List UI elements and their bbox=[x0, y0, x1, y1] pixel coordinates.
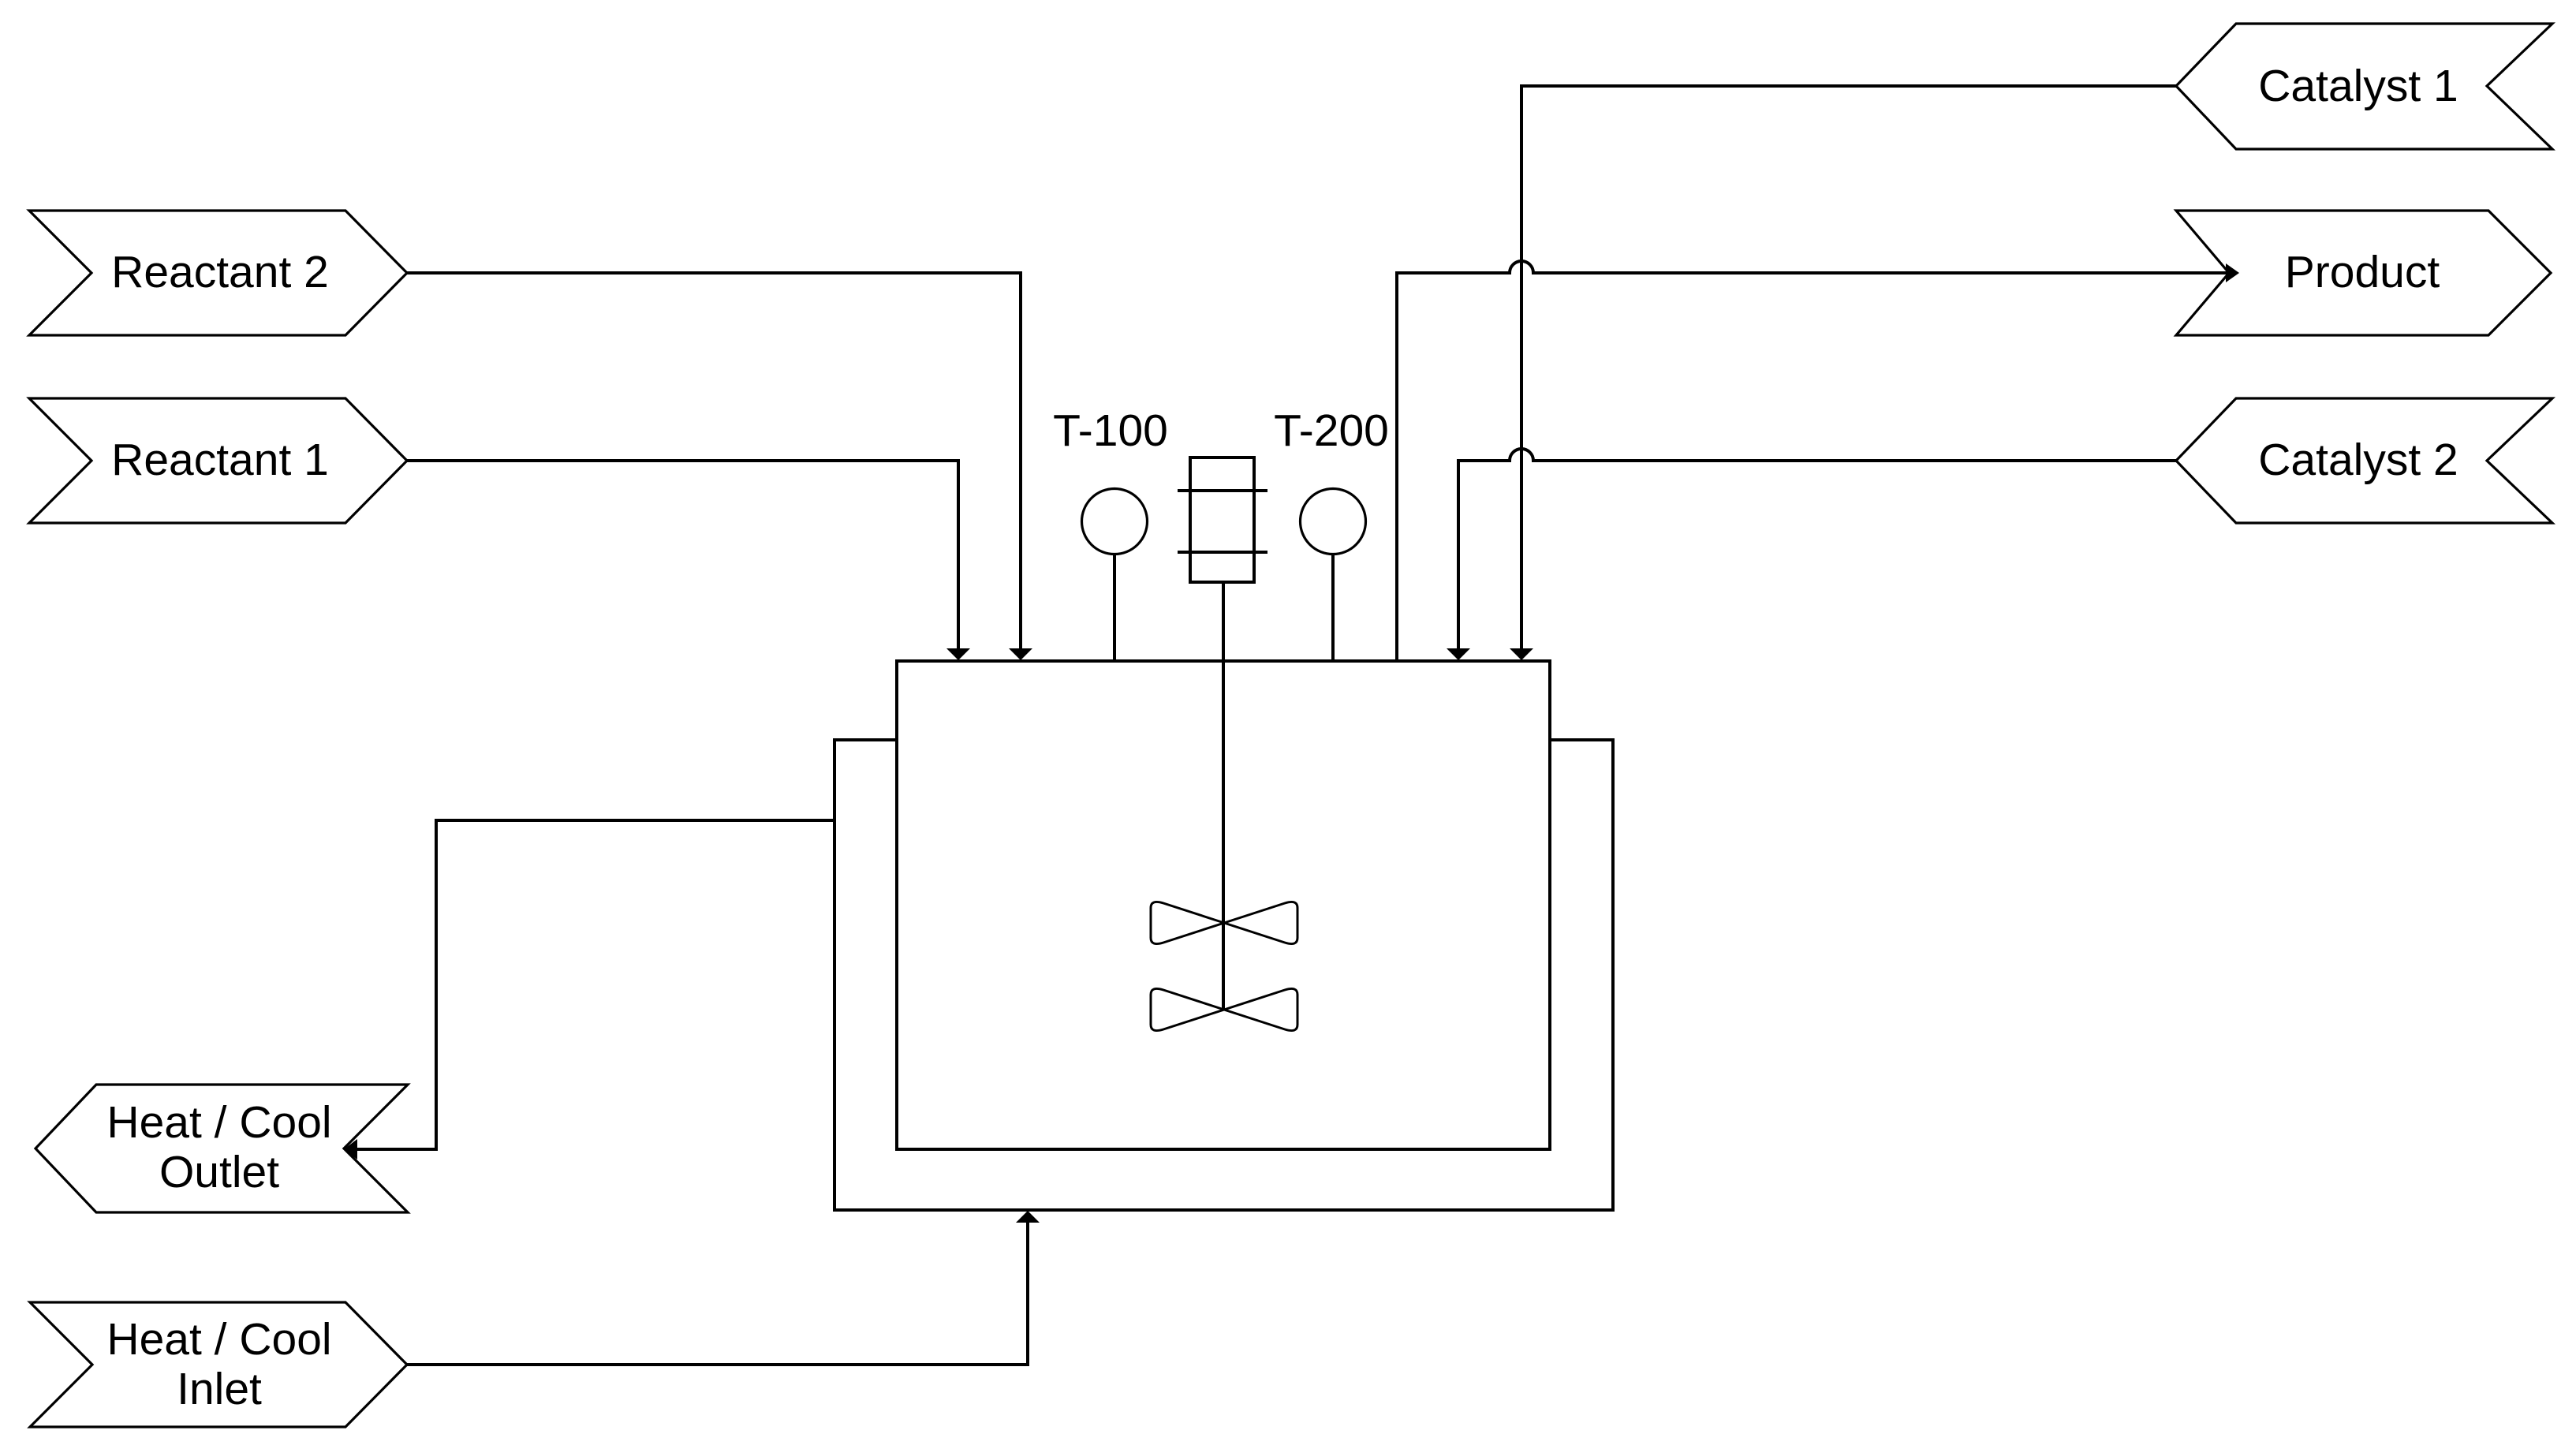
jacket bbox=[834, 740, 1613, 1210]
arrowhead Reactant 1 into vessel bbox=[946, 648, 970, 660]
reactor vessel bbox=[897, 661, 1550, 1149]
flow tag Catalyst 1 bbox=[2176, 24, 2552, 149]
agitator shaft bbox=[1222, 582, 1225, 1010]
svg-text:Reactant 1: Reactant 1 bbox=[111, 435, 329, 485]
svg-text:T-200: T-200 bbox=[1274, 405, 1389, 456]
flow tag Heat / Cool Inlet bbox=[30, 1302, 407, 1427]
stream Reactant 1 to vessel bbox=[407, 461, 958, 648]
agitator motor bbox=[1178, 457, 1267, 582]
arrowhead Product into tag bbox=[2226, 263, 2239, 282]
stream Product from vessel with hop over Catalyst 1 line bbox=[1397, 261, 2226, 661]
svg-text:Product: Product bbox=[2285, 247, 2440, 297]
arrowhead Reactant 2 into vessel bbox=[1009, 648, 1032, 660]
arrowhead Heat / Cool Outlet into tag bbox=[344, 1139, 357, 1160]
stream Reactant 2 to vessel bbox=[407, 273, 1021, 648]
flow tag Product bbox=[2176, 211, 2551, 335]
arrowhead Catalyst 2 into vessel bbox=[1447, 648, 1470, 660]
svg-text:Catalyst 1: Catalyst 1 bbox=[2258, 61, 2458, 111]
stream Heat / Cool Inlet to jacket bbox=[407, 1223, 1028, 1365]
flow tag Catalyst 2 bbox=[2176, 398, 2552, 523]
svg-text:Reactant 2: Reactant 2 bbox=[111, 247, 329, 297]
flow tag Reactant 2 bbox=[29, 211, 407, 335]
svg-text:T-100: T-100 bbox=[1053, 405, 1168, 456]
stream Catalyst 2 to vessel with hop over Catalyst 1 line bbox=[1458, 449, 2176, 648]
instrument T-200 bbox=[1274, 405, 1389, 661]
impeller 2 bbox=[1151, 988, 1297, 1030]
flow tag Reactant 1 bbox=[29, 398, 407, 523]
stream Catalyst 1 to vessel bbox=[1521, 86, 2176, 648]
arrowhead Heat / Cool Inlet into jacket bbox=[1016, 1211, 1040, 1223]
svg-text:Catalyst 2: Catalyst 2 bbox=[2258, 435, 2458, 485]
impeller 1 bbox=[1151, 902, 1297, 943]
arrowhead Catalyst 1 into vessel bbox=[1510, 648, 1533, 660]
instrument T-100 bbox=[1053, 405, 1168, 661]
stream Heat / Cool Outlet from jacket bbox=[357, 820, 834, 1149]
flow tag Heat / Cool Outlet bbox=[35, 1085, 408, 1212]
